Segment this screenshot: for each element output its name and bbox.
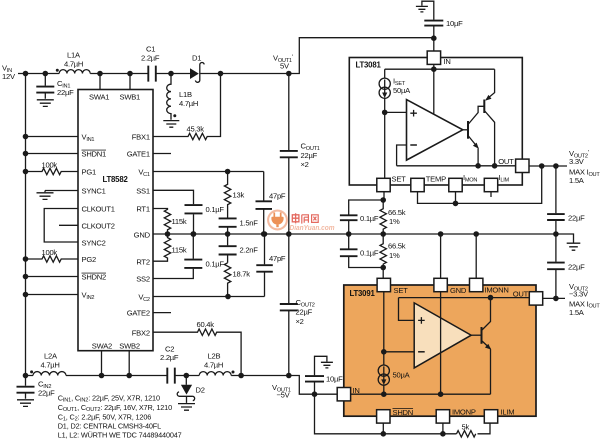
transistor Q3 NPN LT3091 [471,298,491,395]
svg-text:100k: 100k [42,161,58,170]
wire SHDN2 [26,276,79,278]
svg-text:IN: IN [444,57,451,66]
svg-text:2.2µF: 2.2µF [160,353,179,362]
inductor L1A [56,51,90,74]
junction mid rail right [553,231,559,237]
svg-text:22µF: 22µF [296,308,313,317]
svg-text:L2A: L2A [44,352,58,361]
svg-text:FBX2: FBX2 [132,328,150,337]
svg-text:FBX1: FBX1 [132,133,150,142]
svg-text:100k: 100k [42,248,58,257]
capacitor 1.5nF [219,218,259,236]
wire SWB1 stub [129,74,131,90]
svg-text:10µF: 10µF [326,375,343,384]
junction 10uF IN node [312,391,318,397]
wire GATE2 stub [153,312,171,314]
svg-text:13k: 13k [233,191,245,200]
resistor 115k on RT1 [153,209,187,237]
junction L1B [168,71,174,77]
junction OUT loop [539,163,545,169]
junction bus-rail [23,71,29,77]
svg-text:LT3081: LT3081 [356,61,382,70]
pin SHDN LT3091 [377,408,413,423]
svg-text:CLKOUT1: CLKOUT1 [82,205,115,214]
wire CLKOUT1 to SYNC2 loop [44,209,78,243]
resistor 18.7k [224,263,250,297]
svg-text:GATE2: GATE2 [127,309,150,318]
svg-text:PG1: PG1 [82,168,96,177]
svg-text:1.5A: 1.5A [569,308,585,317]
capacitor 0.1uF on SS1 [153,190,224,237]
svg-text:47pF: 47pF [269,254,286,263]
svg-text:IMONP: IMONP [452,408,476,417]
watermark chinese text [292,213,318,223]
inductor L2A [30,352,66,376]
pin IMON LT3081 [449,173,478,192]
wire LT3091 feedback top [399,295,530,321]
svg-text:IN: IN [353,386,360,395]
wire SWB2 stub [128,351,130,376]
inductor L1B [167,74,198,120]
wire minus input LT3091 [384,351,414,353]
capacitor 10uF bottom with ground [305,356,343,394]
pin OUT LT3091 [513,290,543,306]
transistor Q2 PNP [484,69,497,168]
svg-text:SWA2: SWA2 [92,342,112,351]
svg-text:SHDN1: SHDN1 [82,150,107,159]
svg-text:50µA: 50µA [393,86,411,95]
resistor 115k on RT2 [153,234,187,261]
resistor 100k on PG2 [23,248,78,262]
op-amp A1 triangle [407,100,463,161]
junction D1 cathode node [218,71,224,77]
svg-text:4.7µH: 4.7µH [64,60,83,69]
svg-text:45.3k: 45.3k [187,125,205,134]
svg-text:18.7k: 18.7k [233,270,251,279]
pin ILIM LT3081 [484,173,509,192]
wire GATE1 stub [153,153,171,155]
svg-text:TEMP: TEMP [426,175,446,184]
svg-text:SET: SET [392,175,407,184]
svg-text:5k: 5k [462,423,470,432]
capacitor 0.1uF on SS2 [153,231,224,278]
svg-text:4.7µH: 4.7µH [179,99,198,108]
svg-text:RT1: RT1 [136,205,149,214]
capacitor COUT2 [280,234,315,378]
diode D1 [190,54,204,83]
pin IMONN LT3091 [470,278,509,294]
svg-text:115k: 115k [172,246,187,255]
wire GND col to LT3091 [440,234,442,278]
svg-text:D1, D2: CENTRAL CMSH3-40FL: D1, D2: CENTRAL CMSH3-40FL [58,422,161,431]
svg-text:1%: 1% [389,251,400,260]
ground 10uF top [416,6,428,11]
pin OUT LT3081 [498,157,529,173]
wire to plus input [385,111,407,113]
svg-text:0.1µF: 0.1µF [206,205,225,214]
capacitor CIN1 [36,74,74,99]
node VOUT1 -5V labels [272,383,291,400]
svg-text:×2: ×2 [296,317,304,326]
ground mid rail right [556,234,580,250]
svg-text:1.5nF: 1.5nF [240,219,259,228]
svg-text:SET: SET [394,286,409,295]
svg-text:SHDN2: SHDN2 [82,273,107,282]
watermark logo ring [268,211,287,230]
pin IN LT3081 [427,51,450,66]
ground 10uF bottom [321,362,333,368]
op-amp U1 LT8582 box [78,90,153,351]
current source 50uA LT3091 [378,365,410,394]
wire SYNC1 + ground [37,191,79,200]
svg-text:SWB2: SWB2 [119,342,140,351]
wire shdn rail bottom [315,394,491,436]
svg-text:4.7µH: 4.7µH [41,361,60,370]
junction COUT col mid rail [286,231,292,237]
svg-text:66.5k: 66.5k [388,208,406,217]
svg-text:5V: 5V [280,62,290,71]
svg-text:LT3091: LT3091 [350,289,376,298]
capacitor 22uF right lower [547,234,585,298]
svg-text:22µF: 22µF [301,151,318,160]
svg-text:60.4k: 60.4k [197,320,215,329]
wire SHDN1 [26,153,79,155]
capacitor 47pF upper [256,172,286,237]
wire VIN1 [26,136,79,138]
wire OUT-TEMP-IMON loop [418,166,542,206]
LT8582 bottom pin labels [92,342,140,351]
svg-text:22µF: 22µF [568,214,585,223]
wire OUT rail internal [397,165,516,167]
svg-text:×2: ×2 [301,160,309,169]
regulator U3 LT3091 box [344,285,536,416]
op-amp U2 LT3081 box [349,58,522,186]
svg-text:22µF: 22µF [57,88,74,97]
wire ILIM stub [490,192,492,197]
capacitor C2 [160,345,179,384]
notes text block [58,393,182,439]
diode D2 [177,373,205,403]
svg-text:22µF: 22µF [38,389,55,398]
wire minus feedback [397,145,407,166]
svg-text:1%: 1% [389,217,400,226]
wire SET col internal [381,292,387,366]
svg-text:0.1µF: 0.1µF [360,214,379,223]
svg-text:SWB1: SWB1 [120,93,141,102]
svg-text:L1B: L1B [179,90,192,99]
node VOUT1' 5V label [273,54,293,71]
svg-text:GND: GND [450,286,467,295]
svg-text:L1A: L1A [67,51,81,60]
svg-text:SS2: SS2 [136,275,150,284]
pin SET LT3091 [377,278,408,295]
node VIN label [2,64,16,82]
wire VIN2 [26,294,79,296]
wire OUT to right [529,165,567,167]
svg-text:SYNC1: SYNC1 [82,187,106,196]
svg-text:RT2: RT2 [136,257,149,266]
resistor 45.3k on FBX1 [153,74,221,140]
wire VC1 [153,171,264,173]
svg-text:SWA1: SWA1 [89,93,109,102]
svg-text:−5V: −5V [277,391,291,400]
junction OUT 22uF [553,163,559,169]
svg-text:0.1µF: 0.1µF [360,249,379,258]
svg-text:115k: 115k [172,217,187,226]
pin IMONP LT3091 [436,408,476,424]
pin ILIM LT3091 [484,408,514,424]
capacitor 22uF right upper [547,166,585,234]
svg-text:L2B: L2B [208,352,221,361]
node SET upper: 66.5k + 0.1uF [340,192,406,237]
capacitor 47pF lower [256,231,286,296]
svg-text:IMONN: IMONN [485,286,509,295]
ground CIN1 [37,100,54,107]
resistor 100k on PG1 [23,161,78,175]
wire VIN top rail [18,38,434,74]
pin TEMP LT3081 [411,175,446,192]
svg-text:SS1: SS1 [136,187,150,196]
resistor 5k [457,423,476,437]
svg-text:LT8582: LT8582 [103,175,129,184]
ground D2 [178,404,195,411]
LT8582 top pin labels [89,93,140,102]
capacitor C1 [141,45,160,82]
svg-text:3.3V: 3.3V [569,157,585,166]
node SET lower: 66.5k + 0.1uF [340,234,406,278]
svg-text:2.2nF: 2.2nF [240,246,259,255]
svg-text:GND: GND [134,230,151,239]
node VOUT2 labels [569,282,600,317]
wire SWA2 stub [101,351,103,376]
svg-text:12V: 12V [2,72,16,81]
svg-text:SYNC2: SYNC2 [82,239,106,248]
svg-text:47pF: 47pF [269,192,286,201]
svg-text:PG2: PG2 [82,255,96,264]
capacitor COUT1 [280,71,320,234]
svg-text:OUT: OUT [498,157,514,166]
transistor Q1 NPN [463,106,485,168]
svg-text:10µF: 10µF [446,19,463,28]
wire VOUT2 out [543,296,565,302]
pin GND LT3091 [434,278,467,295]
svg-text:GATE1: GATE1 [127,150,150,159]
svg-text:ILIM: ILIM [501,408,515,417]
capacitor CIN2 [17,373,56,399]
pin SET LT3081 [377,175,406,192]
wire CLKOUT2 stub [59,224,78,226]
wire ISET to SET pin [384,98,386,178]
svg-text:D2: D2 [196,386,205,395]
wire GND mid rail [153,233,556,235]
resistor 13k [224,172,244,218]
pin IN LT3091 [337,386,359,401]
svg-text:D1: D1 [192,54,201,63]
node VOUT2' labels [569,149,600,185]
wire IN stub LT3081 [433,38,435,51]
wire bottom -5V rail [26,376,338,395]
svg-text:2.2µF: 2.2µF [141,54,160,63]
svg-text:66.5k: 66.5k [388,242,406,251]
svg-text:C1: C1 [146,45,155,54]
wire LT3081 internal top [385,64,495,113]
wire IMONN col to LT3091 [475,234,477,278]
junction CIN1 [43,71,49,77]
ground L1B [163,121,179,128]
svg-text:CIN1, CIN2: 22µF, 25V, X7R, 12: CIN1, CIN2: 22µF, 25V, X7R, 1210 [58,393,160,403]
svg-text:4.7µH: 4.7µH [204,361,223,370]
svg-text:L1, L2: WÜRTH WE TDC 744894400: L1, L2: WÜRTH WE TDC 74489440047 [58,431,182,440]
wire IN rail internal LT3091 [351,391,491,397]
LT8582 right pin labels [127,133,151,338]
wire VC2 [153,296,265,298]
svg-text:0.1µF: 0.1µF [206,260,225,269]
svg-text:22µF: 22µF [568,263,585,272]
svg-text:−3.3V: −3.3V [569,290,589,299]
svg-text:DianYuan.com: DianYuan.com [290,223,335,232]
LT8582 left pin labels [82,133,115,302]
current source ISET [379,69,411,98]
junction 10uF/IN node [431,35,437,41]
svg-text:CLKOUT2: CLKOUT2 [82,221,115,230]
svg-text:SHDN: SHDN [393,408,414,417]
capacitor 2.2nF [219,234,259,263]
wire left VIN bus [25,74,27,376]
wire GND col internal LT3091 [440,292,442,395]
resistor 60.4k on FBX2 [153,320,244,378]
ground CIN2 [17,400,34,407]
svg-text:50µA: 50µA [393,371,411,380]
wire SWA1 stub [99,74,101,90]
op-amp A2 triangle [414,303,471,368]
svg-text:1.5A: 1.5A [569,176,585,185]
capacitor 10uF top with ground [422,1,463,38]
inductor L2B [199,352,234,376]
